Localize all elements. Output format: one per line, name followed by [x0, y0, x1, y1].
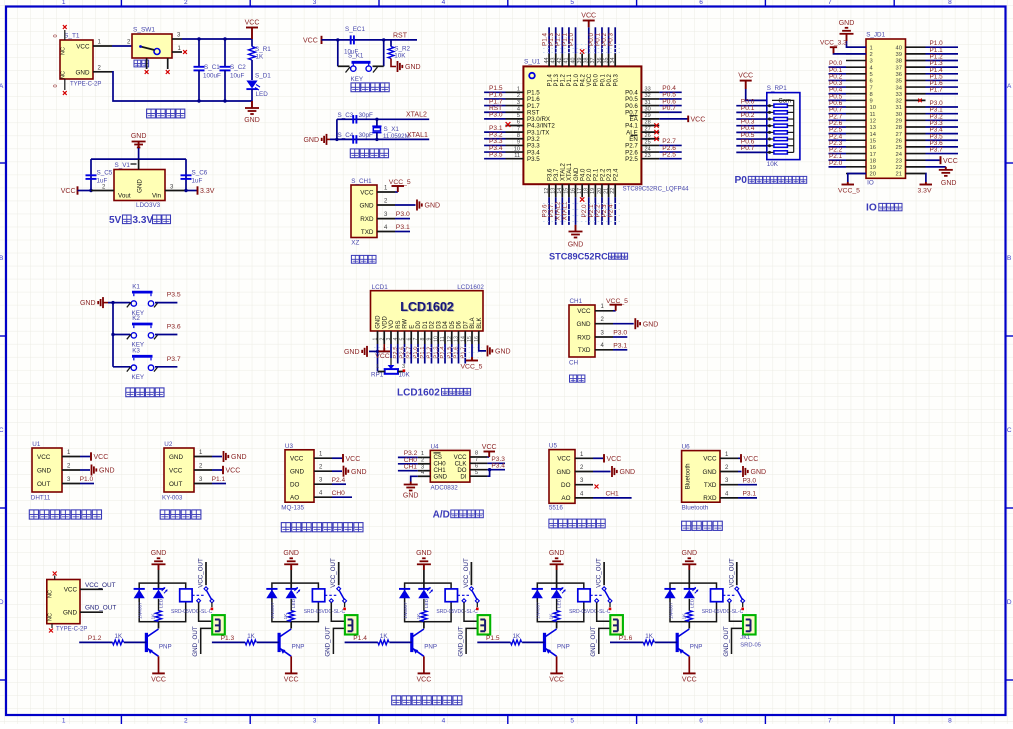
svg-text:VCC: VCC	[549, 677, 564, 684]
svg-text:P1.3: P1.3	[554, 73, 560, 86]
jd1 right pin 35	[906, 79, 926, 81]
relay unit 2 diode 1N4007	[266, 588, 277, 590]
relay unit 5 switch	[735, 587, 739, 591]
mcu bottom pin 20 P2.2	[601, 184, 603, 197]
jd1 left pin 1	[846, 46, 866, 48]
relay unit 5 transistor PNP	[676, 633, 679, 652]
relay unit 5 loop wires	[670, 583, 717, 622]
relay unit 4 terminal block	[610, 615, 623, 634]
svg-text:GND: GND	[434, 473, 448, 480]
svg-text:D4: D4	[443, 320, 449, 328]
svg-text:25: 25	[896, 145, 902, 151]
svg-text:S_R1: S_R1	[255, 46, 271, 53]
relay unit 5 diode 1N4007	[664, 588, 675, 590]
connector CH1 serial	[569, 305, 595, 357]
svg-text:1K: 1K	[645, 633, 653, 640]
label 复位电路	[351, 83, 360, 92]
wire ldo right vertical	[185, 159, 187, 190]
mcu bottom pin 18 P2.0	[588, 184, 590, 197]
rp1 resistor element 6 net P0.5	[767, 138, 774, 140]
svg-text:5: 5	[570, 0, 574, 6]
svg-text:P2.4: P2.4	[614, 168, 620, 181]
relay unit 3 middle branch wires	[423, 583, 425, 589]
svg-text:GND: GND	[416, 550, 432, 557]
svg-text:P0.7: P0.7	[662, 105, 676, 112]
svg-text:GND: GND	[643, 321, 659, 328]
svg-text:VCC: VCC	[577, 308, 591, 315]
label 混合气体检测模块	[281, 523, 290, 532]
svg-text:43: 43	[551, 58, 557, 64]
relay unit 4 coil SRD-05VDC-SL-C	[578, 589, 590, 602]
svg-text:8: 8	[948, 718, 952, 725]
svg-text:VCC_3.3: VCC_3.3	[820, 39, 847, 46]
svg-text:26: 26	[645, 133, 651, 139]
svg-text:VCC_5: VCC_5	[389, 179, 411, 186]
svg-text:DO: DO	[290, 482, 300, 489]
label 温湿度检测模块	[29, 510, 38, 519]
svg-text:NC: NC	[61, 47, 67, 55]
svg-text:1N4007: 1N4007	[403, 602, 409, 619]
lcd pin16 BLK to ground	[479, 344, 486, 351]
svg-text:C: C	[0, 427, 4, 434]
svg-text:1: 1	[62, 718, 66, 725]
jd1 left pin 7	[846, 86, 866, 88]
connector N1 TYPE-C-2P output	[47, 580, 80, 624]
pin 2 CH1 GND	[377, 204, 395, 206]
svg-text:P0.7: P0.7	[741, 145, 755, 152]
mcu right pin 30 P0.7	[641, 111, 659, 113]
svg-text:P0.3: P0.3	[614, 73, 620, 86]
svg-text:29: 29	[896, 119, 902, 125]
svg-text:P3.6: P3.6	[167, 324, 181, 331]
svg-text:P3.0: P3.0	[613, 330, 627, 337]
svg-text:GND_OUT: GND_OUT	[325, 626, 332, 656]
jd1 left pin 17	[846, 153, 866, 155]
svg-text:ADC0832: ADC0832	[431, 485, 459, 492]
svg-text:PNP: PNP	[292, 644, 305, 651]
svg-text:2: 2	[184, 0, 188, 6]
svg-text:DHT11: DHT11	[31, 495, 51, 502]
svg-text:P1.7: P1.7	[930, 87, 944, 94]
svg-text:15: 15	[870, 138, 876, 144]
svg-text:1K: 1K	[283, 613, 289, 620]
relay unit 1 transistor PNP	[145, 633, 148, 652]
svg-text:2: 2	[379, 337, 385, 340]
sensor U2 KY-003	[164, 448, 194, 492]
svg-text:21: 21	[896, 172, 902, 178]
mcu bottom pin 17 P4.0	[581, 184, 583, 197]
svg-text:100uF: 100uF	[203, 73, 221, 80]
svg-text:CH: CH	[569, 360, 579, 367]
relay unit 3 VCC_OUT feed	[470, 562, 472, 585]
svg-text:LED: LED	[557, 598, 563, 608]
svg-text:VO: VO	[389, 320, 395, 329]
svg-text:19: 19	[870, 165, 876, 171]
svg-text:P3.5: P3.5	[167, 292, 181, 299]
mcu right pin 26 EN	[641, 138, 659, 140]
svg-text:3.3V: 3.3V	[200, 188, 215, 195]
svg-text:P3.6: P3.6	[547, 168, 553, 181]
serial pin 2 GND	[595, 323, 613, 325]
mcu left pin 11 P3.5	[506, 158, 524, 160]
svg-text:GND_OUT: GND_OUT	[192, 626, 199, 656]
relay unit 5 coil SRD-05VDC-SL-C	[711, 589, 723, 602]
svg-text:GND: GND	[557, 469, 571, 476]
net label GND_OUT wire	[80, 611, 103, 613]
wire key chain vertical	[112, 303, 114, 367]
svg-text:33: 33	[645, 87, 651, 93]
relay unit 4 loop wires	[537, 583, 584, 622]
relay unit 3 transistor PNP	[410, 633, 413, 652]
mcu right pin 33 P0.4	[641, 91, 659, 93]
svg-text:GND: GND	[80, 300, 96, 307]
capacitor S_C2 10uF	[224, 39, 226, 67]
relay unit 5 terminal block	[743, 615, 756, 634]
svg-text:GND: GND	[244, 117, 260, 124]
svg-text:31: 31	[896, 105, 902, 111]
jd1 left pin 14	[846, 133, 866, 135]
svg-text:3.3V: 3.3V	[918, 187, 932, 194]
relay unit 1 emitter VCC	[158, 656, 160, 673]
svg-text:S_C2: S_C2	[230, 64, 246, 71]
svg-text:OUT: OUT	[169, 481, 182, 488]
svg-text:MQ-135: MQ-135	[281, 505, 304, 512]
svg-text:1K: 1K	[416, 613, 422, 620]
svg-text:15: 15	[564, 188, 570, 194]
pin 1 S_T1 VCC	[93, 45, 112, 47]
svg-text:1K: 1K	[681, 613, 687, 620]
relay unit 1 middle branch wires	[158, 583, 160, 589]
svg-text:GND: GND	[231, 454, 247, 461]
jd1 right pin 40	[906, 46, 926, 48]
svg-text:P4.0: P4.0	[580, 168, 586, 181]
svg-text:GND: GND	[405, 64, 421, 71]
svg-text:VCC: VCC	[557, 456, 571, 463]
svg-text:STC89C52RC: STC89C52RC	[549, 251, 608, 261]
svg-text:P1.2: P1.2	[561, 73, 567, 86]
relay unit 4 switch	[602, 587, 606, 591]
svg-text:3: 3	[402, 364, 405, 370]
svg-text:10K: 10K	[394, 53, 406, 60]
relay unit 3 switch	[469, 587, 473, 591]
relay unit 4 top wire	[556, 570, 558, 583]
ground crystal	[326, 134, 328, 145]
rp1 resistor element 8 net P0.7	[767, 151, 774, 153]
svg-text:3: 3	[517, 100, 520, 106]
svg-text:1: 1	[421, 451, 424, 457]
svg-text:VDD: VDD	[382, 315, 388, 328]
svg-text:NC: NC	[61, 71, 67, 79]
wire vcc to Vout pin 2	[91, 190, 114, 192]
svg-text:P4.2: P4.2	[580, 73, 586, 86]
svg-text:11: 11	[870, 112, 876, 118]
svg-text:P3.5: P3.5	[489, 152, 503, 159]
wire R1 to LED	[251, 60, 253, 80]
svg-text:K2: K2	[132, 315, 140, 322]
svg-text:P1.5: P1.5	[486, 635, 500, 642]
relay unit 3 terminal wires	[464, 603, 477, 622]
relay unit 4 diode 1N4007	[532, 588, 543, 590]
svg-text:2: 2	[870, 52, 873, 58]
mcu top pin 35 P0.2	[608, 54, 610, 67]
ground lcd right	[487, 345, 489, 356]
svg-text:NC: NC	[48, 590, 54, 598]
u3 pin 1 VCC	[314, 457, 332, 459]
relay unit 1 LED	[153, 588, 164, 590]
svg-text:1: 1	[62, 0, 66, 6]
svg-text:GND: GND	[403, 493, 419, 500]
svg-text:P3.1: P3.1	[743, 491, 757, 498]
svg-text:BLA: BLA	[470, 317, 476, 328]
u4 pin 7 CLK P3.3	[470, 462, 488, 464]
wire XTAL1 line	[330, 138, 429, 140]
frame column ticks bottom	[120, 715, 122, 724]
relay unit 4 terminal wires	[597, 603, 610, 622]
svg-text:S_C3: S_C3	[338, 112, 354, 119]
svg-text:10K: 10K	[767, 161, 779, 168]
relay unit 5 top wire	[688, 570, 690, 583]
serial pin 1 VCC_5	[595, 310, 613, 312]
svg-text:VCC: VCC	[703, 456, 717, 463]
svg-text:VCC: VCC	[226, 468, 241, 475]
jd1 right pin 38	[906, 59, 926, 61]
svg-text:40: 40	[896, 45, 902, 51]
svg-text:U5: U5	[549, 443, 558, 450]
jd1 right pin 39	[906, 53, 926, 55]
svg-text:19: 19	[590, 188, 596, 194]
power VCC mcu top	[583, 20, 595, 22]
svg-text:LED: LED	[291, 598, 297, 608]
svg-text:CH1: CH1	[404, 464, 418, 471]
svg-text:VCC: VCC	[303, 38, 318, 45]
svg-text:5516: 5516	[549, 505, 564, 512]
svg-text:LCD1602: LCD1602	[397, 387, 440, 398]
svg-text:6: 6	[517, 120, 520, 126]
wire crystal left vertical	[336, 119, 338, 139]
svg-text:P2.3: P2.3	[607, 168, 613, 181]
svg-text:6: 6	[475, 463, 478, 469]
jd1 right pin 27	[906, 133, 926, 135]
svg-text:5V: 5V	[109, 215, 122, 226]
svg-text:9: 9	[517, 140, 520, 146]
svg-text:8: 8	[948, 0, 952, 6]
svg-text:29: 29	[645, 113, 651, 119]
svg-text:1uF: 1uF	[192, 178, 203, 185]
svg-text:D3: D3	[436, 320, 442, 328]
svg-text:U2: U2	[164, 441, 173, 448]
jd1 right pin 37	[906, 66, 926, 68]
rp1 resistor element 3 net P0.2	[767, 118, 774, 120]
svg-text:P0: P0	[735, 175, 748, 186]
svg-text:P0.0: P0.0	[594, 73, 600, 86]
svg-text:P1.4: P1.4	[547, 73, 553, 86]
jd1 left pin 4	[846, 66, 866, 68]
rp1 resistor element 7 net P0.6	[767, 145, 774, 147]
u5 pin 1 VCC	[575, 457, 593, 459]
relay unit 2 transistor PNP	[278, 633, 281, 652]
svg-text:K1: K1	[132, 283, 140, 290]
svg-text:P2.5: P2.5	[625, 156, 638, 163]
ground lcd left	[366, 346, 368, 357]
svg-text:NC: NC	[48, 613, 54, 621]
jd1 right pin 21	[906, 172, 926, 174]
u4 pin 1 P3.2	[418, 456, 431, 458]
relay unit 1 loop wires	[139, 583, 186, 622]
svg-text:VCC: VCC	[691, 116, 706, 123]
svg-text:GND: GND	[425, 203, 441, 210]
svg-text:Bluetooth: Bluetooth	[685, 464, 692, 490]
svg-text:SRD-05VDC-SL-C: SRD-05VDC-SL-C	[569, 609, 611, 615]
svg-text:VCC: VCC	[37, 454, 51, 461]
svg-text:1N4007: 1N4007	[536, 602, 542, 619]
wire reset top	[322, 39, 418, 41]
mcu S_U1 STC89C52RC_LQFP44	[523, 66, 641, 184]
svg-text:D0: D0	[416, 320, 422, 328]
bluetooth U6	[682, 451, 720, 503]
relay unit 4 VCC_OUT feed	[603, 562, 605, 585]
svg-text:AO: AO	[561, 495, 570, 502]
label 光照检测模块	[549, 519, 558, 528]
svg-text:38: 38	[584, 58, 590, 64]
svg-text:U4: U4	[431, 443, 440, 450]
svg-text:S_T1: S_T1	[64, 33, 80, 40]
svg-text:18: 18	[584, 188, 590, 194]
svg-text:1K: 1K	[247, 633, 255, 640]
svg-text:GND: GND	[703, 469, 717, 476]
svg-text:VCC: VCC	[245, 20, 260, 27]
u3 pin 2 GND	[314, 470, 332, 472]
relay unit 5 emitter VCC	[688, 656, 690, 673]
svg-text:8: 8	[420, 337, 426, 340]
svg-text:VCC_5: VCC_5	[838, 187, 860, 194]
ground jd1 top	[845, 27, 849, 29]
svg-text:7: 7	[870, 85, 873, 91]
jd1 left pin 19	[846, 166, 866, 168]
relay unit 5 middle branch wires	[688, 583, 690, 589]
svg-text:GND: GND	[549, 550, 565, 557]
svg-text:A: A	[1007, 83, 1012, 90]
adc U4 ADC0832	[430, 450, 470, 482]
svg-text:D7: D7	[463, 320, 469, 328]
svg-text:VCC: VCC	[151, 677, 166, 684]
u5 pin 2 GND	[575, 471, 593, 473]
u2 pin 3 P1.1	[194, 483, 212, 485]
label 电源电路	[147, 109, 156, 118]
svg-text:36: 36	[597, 58, 603, 64]
svg-text:13: 13	[551, 188, 557, 194]
svg-text:GND: GND	[131, 133, 147, 140]
jd1 left pin 12	[846, 119, 866, 121]
svg-text:15: 15	[467, 336, 473, 342]
svg-text:GND: GND	[682, 550, 698, 557]
label 继电器控制电路	[392, 696, 401, 705]
jd1 right pin 32	[906, 99, 926, 101]
svg-text:1K: 1K	[513, 633, 521, 640]
mcu left pin 2 P1.6	[506, 98, 524, 100]
svg-text:TYPE-C-2P: TYPE-C-2P	[70, 82, 101, 88]
mcu top pin 41 P1.1	[568, 54, 570, 67]
svg-text:CH1: CH1	[570, 298, 583, 305]
svg-text:IO: IO	[866, 203, 877, 214]
u4 pin 5 DI	[470, 475, 488, 477]
jd1 right pin 23	[906, 159, 926, 161]
u6 pin 1 VCC	[720, 457, 738, 459]
svg-text:9: 9	[870, 99, 873, 105]
mcu right pin 32 P0.5	[641, 98, 659, 100]
svg-text:VCC_OUT: VCC_OUT	[728, 558, 735, 588]
svg-text:U1: U1	[32, 441, 41, 448]
u1 pin 3 P1.0	[62, 483, 80, 485]
svg-text:VCC: VCC	[417, 677, 432, 684]
jd1 left pin 18	[846, 159, 866, 161]
svg-text:GND: GND	[577, 321, 591, 328]
svg-text:PNP: PNP	[690, 644, 703, 651]
relay unit 1 base resistor 1K and input P1.2	[79, 641, 112, 643]
svg-text:A/D: A/D	[433, 509, 450, 520]
relay unit 4 resistor 1K	[554, 611, 560, 622]
jd1 pin 22 GND	[926, 166, 946, 168]
svg-text:P1.0: P1.0	[574, 73, 580, 86]
svg-text:GND: GND	[620, 469, 636, 476]
jd1 left pin 3	[846, 59, 866, 61]
svg-text:P3.7: P3.7	[554, 168, 560, 181]
resistor S_R1 1K	[251, 39, 253, 47]
svg-text:KY-003: KY-003	[162, 495, 183, 502]
svg-text:16: 16	[474, 336, 480, 342]
svg-text:P1.2: P1.2	[427, 346, 433, 358]
jd1 right pin 25	[906, 146, 926, 148]
svg-text:VCC_OUT: VCC_OUT	[596, 558, 603, 588]
mcu top pin 38 VCC	[588, 54, 590, 67]
relay unit 4 middle branch wires	[556, 583, 558, 589]
svg-text:SRD-05VDC-SL-C: SRD-05VDC-SL-C	[304, 609, 346, 615]
svg-text:KEY: KEY	[351, 76, 364, 83]
u6 pin 3 P3.0	[720, 484, 738, 486]
wire vcc to com	[746, 89, 767, 100]
svg-text:P1.2: P1.2	[88, 635, 102, 642]
jd1 left pin 15	[846, 139, 866, 141]
svg-text:VCC: VCC	[360, 189, 374, 196]
svg-text:SRD-05VDC-SL-C: SRD-05VDC-SL-C	[702, 609, 744, 615]
mcu top pin 44 P1.4	[548, 54, 550, 67]
mcu bottom pin 14 XTAL2	[561, 184, 563, 197]
svg-text:KEY: KEY	[132, 374, 145, 381]
svg-text:12: 12	[447, 336, 453, 342]
svg-text:SRD-05VDC-SL-C: SRD-05VDC-SL-C	[171, 609, 213, 615]
svg-text:P1.1: P1.1	[212, 476, 226, 483]
relay unit 2 terminal wires	[331, 603, 344, 622]
mcu top pin 40 P1.0	[575, 54, 577, 67]
svg-text:12: 12	[870, 119, 876, 125]
mcu top pin 37 P0.0	[594, 54, 596, 67]
svg-text:2: 2	[184, 718, 188, 725]
mcu bottom pin 22 P2.4	[614, 184, 616, 197]
svg-text:44: 44	[544, 58, 550, 64]
svg-text:GND: GND	[376, 315, 382, 329]
svg-text:P3.1: P3.1	[613, 342, 627, 349]
svg-text:33: 33	[896, 92, 902, 98]
svg-text:S_RP1: S_RP1	[767, 85, 787, 92]
svg-text:26: 26	[896, 138, 902, 144]
svg-text:10: 10	[433, 336, 439, 342]
svg-text:8: 8	[517, 133, 520, 139]
svg-text:GND: GND	[151, 550, 167, 557]
svg-text:P1.3: P1.3	[221, 635, 235, 642]
sensor U3 MQ-135	[285, 450, 314, 502]
svg-text:1N4007: 1N4007	[138, 602, 144, 619]
svg-text:VCC: VCC	[64, 587, 78, 594]
svg-text:VCC: VCC	[375, 353, 389, 360]
